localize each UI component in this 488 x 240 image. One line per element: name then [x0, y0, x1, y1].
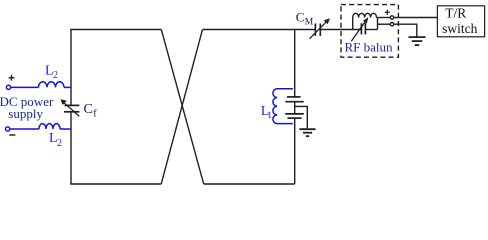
terminal bottom circle [390, 23, 393, 26]
wire bottom edge left loop [70, 183, 161, 185]
ground middle [299, 129, 315, 136]
wire right vertical middle segment between series capacitors [294, 102, 296, 114]
wire diagonal cross top-left to bottom-right [161, 30, 203, 185]
wire right vertical upper segment [294, 30, 296, 97]
capacitor lower series cap bottom plate [288, 117, 302, 119]
capacitor CM right plate [319, 24, 321, 36]
blue circuit parts [6, 82, 293, 131]
wire top terminal to T/R switch [394, 17, 438, 19]
svg-text:C: C [84, 102, 93, 117]
RF balun box dashed [341, 5, 398, 58]
capacitor Cf top plate [65, 104, 80, 106]
T/R switch box [437, 6, 484, 37]
wire balun main to plates right [366, 29, 378, 31]
label T/R switch [442, 5, 477, 36]
wire L2 bottom to loop [60, 128, 71, 130]
label L2 top [45, 63, 58, 81]
wire diagonal cross top-right to bottom-left [161, 30, 202, 185]
wire top edge left loop [70, 29, 161, 31]
capacitor upper series cap bottom plate [285, 101, 304, 103]
wire tie to bottom terminal [378, 23, 391, 25]
svg-text:RF balun: RF balun [345, 40, 394, 55]
wire right vertical lower segment [294, 118, 296, 184]
wire balun coil to top terminal [377, 17, 391, 19]
terminal top circle [390, 16, 393, 19]
wire balun right vertical tie [377, 18, 379, 30]
inductor balun coil [353, 13, 377, 17]
svg-text:supply: supply [8, 106, 43, 121]
svg-text:C: C [296, 9, 305, 24]
wire bottom terminal to ground [394, 24, 417, 37]
label L1 [261, 104, 272, 121]
inductor L2 bottom [39, 124, 60, 129]
wire left vertical lower segment of crossed loop [70, 112, 72, 184]
svg-text:M: M [305, 18, 314, 28]
wire bottom edge right loop [204, 183, 295, 185]
svg-text:f: f [93, 108, 97, 119]
label CM [296, 9, 314, 27]
capacitor CM variable arrow [310, 18, 330, 39]
capacitor balun variable arrow [351, 17, 368, 41]
wire plus terminal to L2 top [11, 86, 39, 88]
wire balun riser left [352, 18, 354, 30]
terminal minus circle [6, 127, 10, 131]
wire center-tap to ground [295, 106, 308, 128]
wire minus terminal to L2 bottom [10, 128, 39, 130]
svg-text:2: 2 [57, 138, 62, 149]
wire CM to balun capacitor [320, 29, 361, 31]
wire top edge right loop [203, 29, 295, 31]
svg-text:T/R: T/R [445, 5, 466, 20]
capacitor upper series cap top plate [287, 96, 301, 98]
svg-text:switch: switch [442, 21, 477, 36]
ground right [409, 37, 426, 45]
inductor L1 with stubs [273, 89, 293, 124]
capacitor Cf variable arrow [60, 99, 79, 116]
capacitor balun right plate [364, 23, 366, 34]
wire left vertical upper segment of crossed loop [70, 30, 72, 106]
svg-text:2: 2 [53, 70, 58, 81]
capacitor lower series cap top plate [285, 113, 304, 115]
minus sign DC supply [9, 134, 15, 136]
plus sign balun output [385, 10, 390, 15]
terminal plus circle [6, 85, 10, 89]
plus sign DC supply [9, 75, 15, 81]
svg-text:1: 1 [267, 111, 272, 121]
inductor L2 top [39, 82, 65, 88]
wire output to matching capacitor [295, 29, 316, 31]
capacitor CM left plate [314, 24, 316, 36]
capacitor Cf bottom plate [64, 111, 79, 113]
label Cf [84, 102, 98, 119]
label DC power supply [0, 94, 54, 121]
capacitor balun left plate [360, 23, 362, 34]
wire L2 top to loop [64, 86, 71, 88]
label L2 bottom [49, 131, 62, 149]
